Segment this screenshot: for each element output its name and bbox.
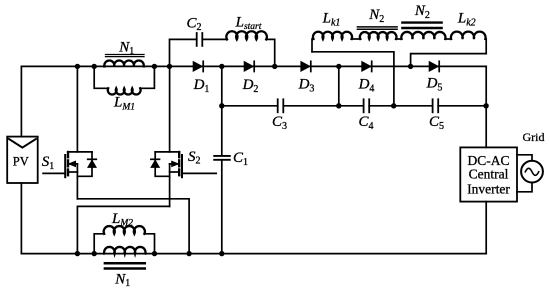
inductor LM2 (parallel winding above bottom rail) xyxy=(94,226,154,254)
wire inverter to bottom rail xyxy=(485,202,487,254)
wire C1 branch upper xyxy=(221,66,223,155)
wire S1 source to bottom rail (right side) xyxy=(77,199,189,254)
diode D2 xyxy=(244,61,254,71)
capacitor C4 xyxy=(364,99,370,112)
diode D1 xyxy=(193,61,203,71)
diode D5 xyxy=(429,61,439,71)
node D2-D3 / Lstart xyxy=(272,64,277,69)
wire left vertical bottom (PV- to bottom rail) xyxy=(20,183,22,254)
capacitor C2 xyxy=(197,33,203,46)
AC source circle xyxy=(521,161,543,183)
diode D3 xyxy=(301,61,311,71)
node bottom rail LM2 right xyxy=(152,251,157,256)
node D4-D5 xyxy=(408,64,413,69)
node cap row C4-C5 xyxy=(391,103,396,108)
inductor LM1 (parallel winding below rail) xyxy=(94,66,154,94)
inductor N1 (bottom, on rail) xyxy=(104,247,145,254)
svg-text:Central: Central xyxy=(469,166,509,181)
node top rail LM1 right xyxy=(152,64,157,69)
inductor Lk2 xyxy=(451,32,486,39)
capacitor C5 xyxy=(433,99,439,112)
node top rail LM1 left xyxy=(92,64,97,69)
wire C2 to Lstart xyxy=(202,38,227,40)
core mark N2 first xyxy=(357,27,397,29)
svg-text:Grid: Grid xyxy=(523,130,545,144)
wire left vertical top (PV+ to top rail) xyxy=(20,66,22,136)
node cap row right xyxy=(483,103,488,108)
inductor Lstart xyxy=(226,31,266,39)
wire Lstart down to rail xyxy=(266,39,275,66)
core mark N1 top xyxy=(106,55,145,57)
wire capacitor row xyxy=(222,105,278,107)
wire top rail to inverter xyxy=(485,66,487,147)
wire S2 source to bottom rail (left side) xyxy=(77,206,169,253)
winding N2 (first) xyxy=(360,32,397,39)
node top rail S1 drain xyxy=(75,64,80,69)
node cap row C1 xyxy=(219,103,224,108)
node bottom rail C1 xyxy=(219,251,224,256)
wire D3-D4 node down to cap row xyxy=(338,66,340,105)
node bottom rail LM2 left xyxy=(92,251,97,256)
wire grid bracket top xyxy=(517,155,532,161)
transistor S2 (MOSFET with body diode, mirrored) xyxy=(151,66,216,206)
capacitor C3 xyxy=(278,99,284,112)
diode D4 xyxy=(362,61,372,71)
svg-text:Inverter: Inverter xyxy=(467,181,510,196)
wire bottom rail xyxy=(21,253,486,255)
core mark N2 second xyxy=(402,23,441,28)
node bottom rail S1 source xyxy=(186,251,191,256)
inductor Lk1 xyxy=(312,39,313,52)
node D3-D4 xyxy=(336,64,341,69)
coupled inductor chain Lk1 N2 N2 Lk2 xyxy=(312,32,486,54)
transistor S1 (MOSFET with body diode) xyxy=(43,66,96,198)
svg-text:PV: PV xyxy=(13,155,29,169)
node D1-D2 / C1 xyxy=(219,64,224,69)
node dots xyxy=(75,64,489,257)
node cap row C3-C4 xyxy=(336,103,341,108)
wire grid bracket bottom xyxy=(517,182,532,191)
wire C1 branch lower xyxy=(221,161,223,254)
wire C2 branch xyxy=(170,39,197,66)
node bottom rail S2 source xyxy=(75,251,80,256)
PV source xyxy=(7,137,38,183)
winding N2 (second) xyxy=(401,32,445,39)
core mark N1 bottom xyxy=(105,263,145,268)
node top rail C2/S2 drain xyxy=(167,64,172,69)
wire top rail xyxy=(21,65,486,67)
wire left bus from Lk1 down to C4 node xyxy=(312,52,394,106)
DC-AC inverter box xyxy=(460,147,517,201)
wire right bus from Lk2 down to D4-D5 node xyxy=(411,54,487,67)
capacitor C1 xyxy=(214,156,230,160)
inductor N1 (top, on rail) xyxy=(104,60,143,66)
